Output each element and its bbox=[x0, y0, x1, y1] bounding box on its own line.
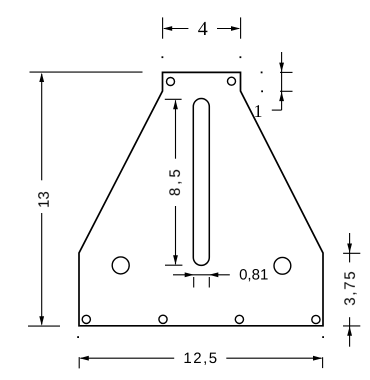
hole mid-right large bbox=[274, 257, 291, 274]
dimension 13 (left height) bbox=[28, 72, 143, 326]
dimension 8,5 (slot length) bbox=[165, 99, 183, 265]
hole top-left bbox=[167, 78, 175, 86]
svg-text:4: 4 bbox=[198, 18, 208, 40]
dimension 1 extension gap dots bbox=[261, 72, 263, 93]
svg-text:1: 1 bbox=[254, 101, 263, 121]
dimension 0,81 (slot width) bbox=[173, 272, 230, 287]
svg-text:3,75: 3,75 bbox=[342, 270, 359, 306]
dimension 4 (top width) bbox=[163, 17, 241, 38]
dimension 1 (shoulder height, top right) bbox=[272, 52, 293, 110]
plate outline bbox=[79, 72, 323, 325]
hole bottom 2 bbox=[159, 315, 167, 323]
dimension 12,5 (bottom width) bbox=[79, 356, 322, 369]
svg-text:8,5: 8,5 bbox=[167, 166, 184, 196]
slot bbox=[193, 99, 209, 266]
hole bottom 1 bbox=[82, 315, 90, 323]
hole bottom 4 bbox=[312, 315, 320, 323]
hole top-right bbox=[228, 77, 236, 85]
dimension 12,5 extension gap dots bbox=[77, 336, 324, 338]
hole bottom 3 bbox=[235, 315, 243, 323]
svg-text:0,81: 0,81 bbox=[239, 267, 268, 284]
svg-text:13: 13 bbox=[36, 191, 53, 208]
svg-text:12,5: 12,5 bbox=[183, 350, 218, 367]
hole mid-left large bbox=[112, 257, 129, 274]
dimension 3,75 (right bottom height) bbox=[343, 233, 360, 347]
dimension 4 extension gap dots bbox=[162, 56, 242, 58]
